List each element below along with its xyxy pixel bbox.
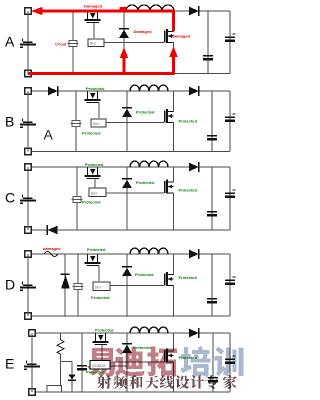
svg-text:C=out: C=out — [55, 42, 67, 47]
svg-text:C: C — [5, 190, 15, 206]
svg-text:Protected: Protected — [91, 295, 110, 300]
svg-text:Protected: Protected — [179, 188, 198, 193]
svg-text:Protected: Protected — [82, 131, 101, 136]
svg-text:Protected: Protected — [136, 110, 155, 115]
svg-text:Protected: Protected — [87, 247, 106, 252]
svg-text:damaged: damaged — [43, 246, 61, 251]
svg-text:B: B — [5, 114, 14, 130]
svg-text:Protected: Protected — [179, 355, 198, 360]
svg-text:Damaged: Damaged — [172, 34, 191, 39]
svg-text:Protected: Protected — [82, 200, 101, 205]
svg-text:Damaged: Damaged — [134, 29, 153, 34]
svg-text:Drvr: Drvr — [93, 122, 100, 126]
svg-text:Drvr: Drvr — [90, 42, 97, 46]
svg-text:Protected: Protected — [133, 345, 152, 350]
svg-text:Protected: Protected — [135, 272, 154, 277]
svg-text:Drvr: Drvr — [91, 192, 98, 196]
svg-text:LTC4213: LTC4213 — [92, 364, 105, 368]
svg-text:Damaged: Damaged — [84, 4, 103, 9]
svg-text:Protected: Protected — [85, 162, 104, 167]
svg-text:E: E — [5, 356, 14, 372]
svg-text:D: D — [5, 277, 15, 293]
svg-text:Protected: Protected — [179, 119, 198, 124]
svg-text:Protected: Protected — [86, 370, 105, 375]
svg-text:Drvr: Drvr — [95, 286, 102, 290]
svg-text:Protected: Protected — [95, 328, 114, 333]
svg-text:A: A — [5, 34, 15, 50]
svg-text:A: A — [44, 127, 54, 143]
svg-text:Protected: Protected — [179, 275, 198, 280]
svg-text:Protected: Protected — [86, 86, 105, 91]
svg-text:Protected: Protected — [136, 180, 155, 185]
